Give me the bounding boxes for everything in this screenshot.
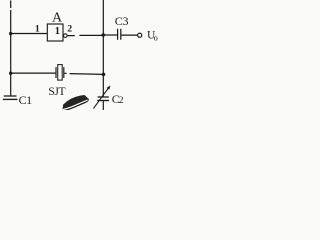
svg-text:1: 1 [55, 26, 60, 37]
arrow of variable capacitor C2 [93, 88, 108, 108]
wire crystal to bottom junction [64, 73, 103, 74]
svg-text:A: A [52, 11, 63, 26]
wire bottom left to crystal [11, 72, 56, 74]
node bottom-left junction [9, 72, 12, 75]
wire input horizontal [11, 33, 48, 35]
wire junction to C3 [103, 34, 117, 36]
wire output from bubble to junction [67, 34, 103, 36]
wire left vertical rail [10, 1, 12, 96]
svg-text:1: 1 [35, 24, 40, 35]
inversion bubble [64, 34, 68, 38]
node bottom-right junction [102, 73, 106, 77]
crystal SJT [56, 65, 64, 81]
inverter U A box [47, 24, 63, 41]
svg-text:o: o [154, 34, 158, 43]
node input junction [9, 32, 12, 35]
node top-right junction [102, 33, 106, 37]
output terminal [138, 33, 142, 37]
capacitor C1 [3, 96, 18, 99]
wire C3 to output terminal [121, 34, 137, 36]
svg-text:2: 2 [119, 96, 124, 106]
watermark swoosh [62, 95, 89, 110]
capacitor C3 [118, 29, 121, 40]
svg-text:2: 2 [67, 24, 72, 35]
svg-text:C1: C1 [19, 93, 33, 107]
svg-text:SJT: SJT [48, 86, 65, 98]
svg-text:C3: C3 [115, 14, 129, 28]
wire below C2 [102, 101, 104, 110]
variable capacitor C2 [97, 97, 109, 101]
wire right vertical rail [102, 0, 104, 96]
